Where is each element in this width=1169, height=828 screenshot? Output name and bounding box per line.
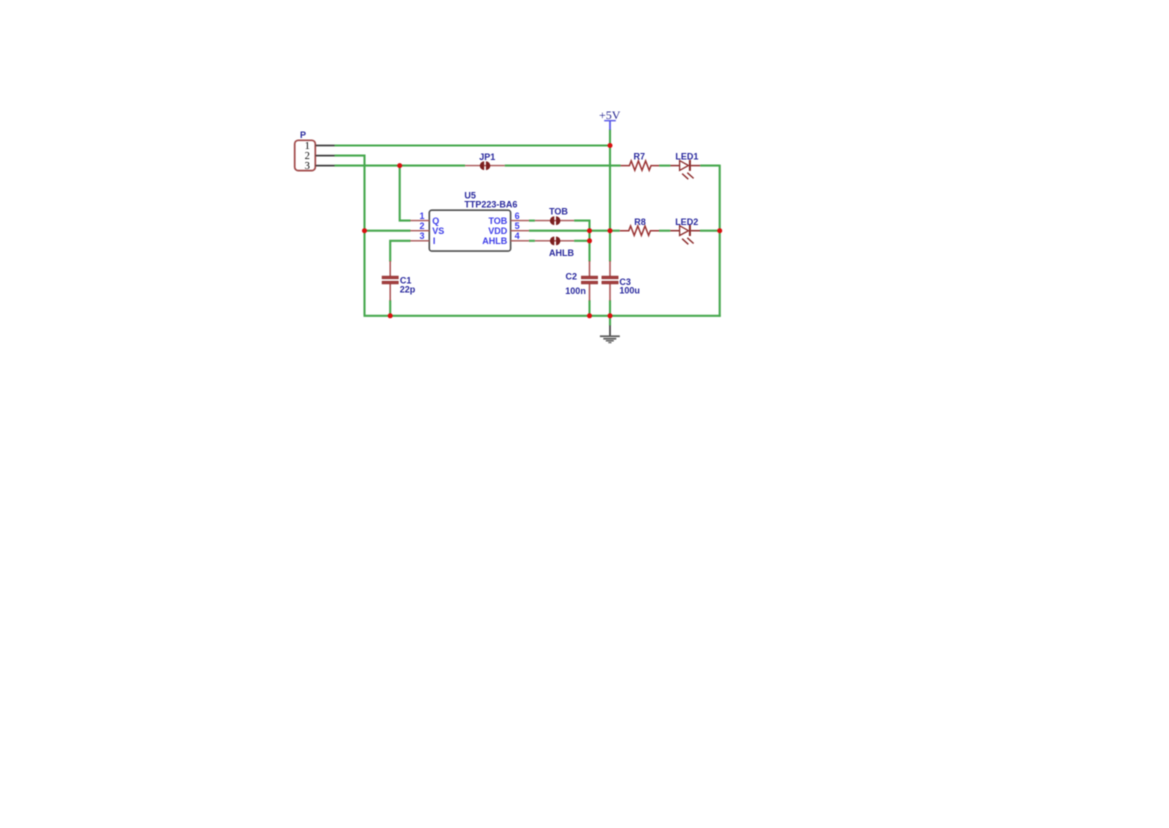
svg-text:6: 6 [515, 211, 520, 221]
svg-text:3: 3 [419, 231, 424, 241]
svg-text:LED1: LED1 [675, 151, 698, 161]
svg-text:JP1: JP1 [479, 152, 495, 162]
svg-text:100u: 100u [619, 285, 640, 295]
svg-text:TOB: TOB [488, 216, 507, 226]
svg-text:C2: C2 [566, 271, 578, 281]
svg-text:100n: 100n [565, 286, 586, 296]
svg-text:VDD: VDD [488, 226, 508, 236]
svg-text:R7: R7 [634, 151, 646, 161]
svg-text:P: P [300, 130, 306, 140]
svg-text:4: 4 [515, 231, 520, 241]
svg-text:3: 3 [305, 161, 310, 172]
svg-text:Q: Q [432, 216, 439, 226]
svg-text:5: 5 [515, 221, 520, 231]
svg-text:VS: VS [432, 226, 444, 236]
svg-text:1: 1 [419, 211, 424, 221]
svg-text:AHLB: AHLB [549, 248, 574, 258]
svg-text:TTP223-BA6: TTP223-BA6 [464, 200, 517, 210]
svg-text:22p: 22p [400, 285, 416, 295]
svg-text:2: 2 [419, 221, 424, 231]
svg-text:AHLB: AHLB [482, 236, 507, 246]
svg-text:R8: R8 [634, 217, 646, 227]
svg-text:+5V: +5V [599, 108, 621, 122]
svg-text:I: I [433, 236, 436, 246]
svg-text:LED2: LED2 [675, 217, 698, 227]
svg-text:TOB: TOB [549, 206, 568, 216]
